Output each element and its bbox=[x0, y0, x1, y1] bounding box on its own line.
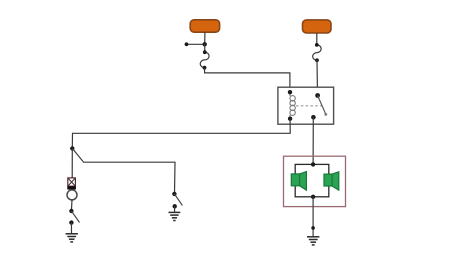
terminal dot above ground bbox=[311, 226, 315, 230]
wire S1 to ground bbox=[70, 223, 72, 234]
node D (loop bottom) bbox=[311, 195, 315, 199]
relay coil terminal pin top bbox=[288, 90, 292, 94]
horn H1 (left speaker) bbox=[291, 172, 306, 191]
relay actuation dashed link bbox=[296, 105, 322, 107]
relay U1 box bbox=[278, 87, 334, 124]
relay switch arm bbox=[318, 96, 326, 115]
node C (loop top) bbox=[311, 162, 315, 166]
horn assembly enclosure (red box) bbox=[284, 156, 346, 206]
fuse element F2 squiggle bbox=[313, 43, 322, 62]
ground G3 bbox=[307, 237, 319, 245]
ground G2 bbox=[169, 212, 181, 220]
wire stub left terminal bbox=[187, 43, 205, 45]
wire lamp to switch S1 bbox=[70, 200, 73, 211]
ground G1 bbox=[66, 234, 78, 242]
horn parallel wiring loop bbox=[295, 164, 329, 196]
fuse holder F1 (left orange block) bbox=[190, 20, 219, 32]
terminal dot (open stub end) bbox=[185, 42, 189, 46]
relay switch common pin bbox=[315, 93, 320, 98]
fuse element F1 squiggle bbox=[200, 50, 209, 69]
wire relay output to horn assembly bbox=[312, 117, 314, 164]
wire node B to lamp bbox=[71, 148, 73, 178]
wire horn assembly to ground bbox=[312, 197, 314, 237]
wire fuse F1 to relay coil top bbox=[205, 68, 290, 93]
indicator lamp DS1 bbox=[67, 178, 77, 200]
relay coil L1 bbox=[290, 92, 295, 119]
switch S2 (middle) bbox=[172, 192, 182, 209]
relay coil terminal pin bottom bbox=[288, 117, 292, 121]
wire node B to switch S2 (middle branch) bbox=[72, 148, 175, 194]
relay output pin bbox=[311, 115, 316, 120]
fuse holder F2 (right orange block) bbox=[303, 20, 332, 33]
switch S1 (horn button) bbox=[69, 209, 79, 225]
wire F1 bottom to junction bbox=[204, 32, 206, 44]
node B junction bbox=[70, 146, 74, 150]
junction node A bbox=[203, 42, 207, 46]
wire junction to fuse element bbox=[204, 44, 206, 52]
wire fuse F2 to relay switch common bbox=[316, 60, 319, 95]
wire S2 to ground bbox=[174, 206, 176, 212]
horn H2 (right speaker) bbox=[324, 172, 339, 190]
wire F2 bottom to fuse element bbox=[316, 33, 318, 45]
wire relay coil bottom to node B (long left run) bbox=[72, 119, 290, 149]
